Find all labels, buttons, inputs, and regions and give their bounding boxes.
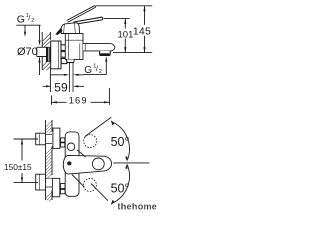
- mixer body (plan): [65, 132, 79, 196]
- svg-text:Ø70: Ø70: [17, 46, 38, 58]
- cartridge circle: [67, 143, 75, 151]
- dashed circle: spout swivelled down 50: [83, 178, 96, 191]
- dashed circle: spout swivelled up 50: [84, 135, 97, 148]
- wall strip front line: [51, 120, 53, 200]
- dimension 145: [144, 6, 146, 53]
- wall hatching bottom view: [46, 121, 52, 202]
- dim 101 top reference line (from lever tip): [104, 18, 130, 20]
- upper leg inner segment: [77, 150, 86, 157]
- svg-text:G: G: [17, 13, 25, 25]
- wall section top view: back line: [41, 32, 43, 70]
- raised lever (open position outline): [67, 6, 96, 23]
- wall section top view: front line: [49, 32, 51, 92]
- svg-text:145: 145: [133, 25, 151, 37]
- svg-text:150±15: 150±15: [4, 162, 32, 172]
- shower outlet boss: [66, 60, 74, 63]
- dim 150+-15 line and arrows: [21, 139, 23, 183]
- spout (plan, pointing right): [63, 155, 111, 174]
- svg-text:50°: 50°: [111, 135, 130, 149]
- cartridge cap (lever base): [61, 23, 80, 34]
- lower angle arc: [112, 165, 130, 204]
- escutcheon (wall flange): [51, 41, 61, 69]
- back nut (dark): [46, 47, 52, 62]
- inlet pipe tail (into wall): [37, 47, 51, 56]
- leader 2 / diameter dim line with arrows: [39, 25, 41, 75]
- spout: [83, 43, 115, 51]
- lever paddle (rest position): [74, 17, 103, 24]
- svg-text:50°: 50°: [111, 181, 130, 195]
- shower outlet tube / extension lines: [70, 63, 74, 93]
- upper 50 deg leg: [85, 117, 111, 136]
- horizontal angle reference line: [113, 162, 149, 164]
- lower 50 deg legs: [72, 175, 108, 201]
- leader up to aerator with arrow: [105, 61, 107, 75]
- wall hatching top view: [42, 34, 50, 71]
- aerator circle (plan): [92, 158, 104, 170]
- svg-text:101: 101: [118, 29, 134, 40]
- bottom union flange: [52, 178, 59, 197]
- bottom union nut facets: [61, 184, 66, 189]
- aerator under spout end: [100, 51, 111, 56]
- top union through-wall pipe: [46, 135, 53, 144]
- wall strip back line: [45, 120, 47, 200]
- thread diameter arrows at shower tube: [50, 74, 84, 76]
- svg-text:2: 2: [99, 69, 102, 75]
- lever slot (small dark oval): [67, 161, 71, 165]
- top union nut facets: [61, 138, 65, 142]
- union nut between escutcheon and body: [61, 45, 67, 51]
- 169 right extension line: [108, 88, 110, 105]
- dim 150+-15 extension lines: [14, 139, 39, 183]
- dimension 59: [43, 85, 84, 87]
- dimension 169: [52, 101, 110, 103]
- lever rear wedge: [55, 27, 62, 35]
- dim 145 top reference line: [96, 5, 152, 7]
- leader 1 with arrow: [24, 25, 26, 32]
- body: [65, 34, 83, 60]
- label G1/2 (inlet) text: [17, 13, 35, 26]
- label G1/2 bottom underline: [84, 74, 106, 76]
- svg-text:2: 2: [31, 18, 34, 24]
- label G1/2 underline: [16, 24, 40, 26]
- svg-text:169: 169: [69, 95, 88, 105]
- bottom union through-wall pipe: [46, 178, 53, 187]
- top union flange: [53, 128, 60, 148]
- dimension 101: [124, 19, 126, 53]
- bottom union tail block: [36, 174, 46, 190]
- top union tail block: [36, 133, 46, 145]
- bottom reference line (aerator level): [113, 52, 152, 54]
- svg-text:59: 59: [54, 81, 68, 95]
- label G1/2 (shower outlet) text: [84, 63, 102, 75]
- upper angle arc: [112, 122, 130, 161]
- svg-text:thehome: thehome: [118, 201, 158, 211]
- 169 left extension line: [51, 96, 53, 105]
